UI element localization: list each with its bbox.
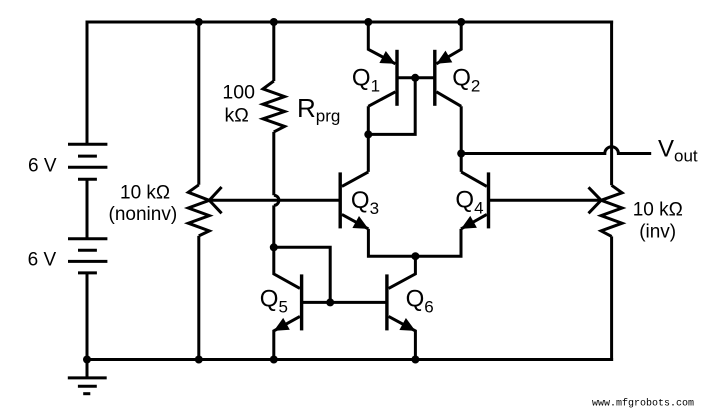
transistor Q4 emitter bbox=[461, 214, 487, 229]
node dot Q5 collector bbox=[270, 243, 278, 251]
node dot differential tail bbox=[411, 252, 419, 260]
wire hop over wiper line bbox=[274, 195, 279, 205]
transistor Q4 collector bbox=[461, 172, 487, 187]
wire right supply rail upper segment bbox=[610, 21, 613, 186]
wire output node to Vout with hop over right rail bbox=[461, 147, 651, 154]
battery V2 (6 V) bbox=[68, 239, 107, 273]
transistor Q2 collector bbox=[436, 92, 461, 107]
svg-text:6 V: 6 V bbox=[28, 250, 57, 271]
transistor Q1 emitter wire from top rail bbox=[368, 22, 395, 64]
svg-text:(noninv): (noninv) bbox=[109, 204, 178, 225]
transistor Q6 collector bbox=[389, 256, 416, 288]
ground bbox=[68, 360, 107, 394]
wire Rprg lower branch above hop bbox=[272, 132, 275, 195]
wire bottom supply rail bbox=[86, 358, 614, 361]
transistor Q4 emitter arrow bbox=[461, 216, 477, 229]
potentiometer noninv wiper arrowhead bbox=[209, 187, 221, 213]
svg-text:www.mfgrobots.com: www.mfgrobots.com bbox=[592, 397, 694, 409]
node dot bottom rail at Q6 emitter bbox=[411, 356, 419, 364]
wire Rprg top branch bbox=[272, 22, 275, 81]
wire between battery V1 and battery V2 bbox=[86, 179, 89, 239]
transistor Q5 collector bbox=[274, 247, 300, 288]
transistor Q1 collector bbox=[368, 92, 395, 107]
node dot output node bbox=[457, 150, 465, 158]
node dot bottom rail at noninv pot bbox=[195, 356, 203, 364]
transistor Q1 base bar bbox=[395, 50, 398, 106]
node dot bottom rail at Q5 emitter bbox=[270, 356, 278, 364]
transistor Q2 emitter arrow bbox=[436, 51, 452, 64]
transistor Q3 collector bbox=[342, 172, 368, 187]
transistor Q6 base bar bbox=[385, 274, 388, 330]
node dot top rail at Q1 emitter bbox=[364, 18, 372, 26]
node dot top rail at Q2 emitter bbox=[457, 18, 465, 26]
potentiometer inv wiper arrowhead bbox=[589, 187, 602, 213]
transistor Q3 base bar bbox=[339, 172, 342, 228]
potentiometer 10 kOhm noninv body bbox=[188, 185, 209, 236]
svg-text:kΩ: kΩ bbox=[225, 105, 249, 127]
transistor Q5 emitter bbox=[274, 316, 300, 359]
svg-text:10 kΩ: 10 kΩ bbox=[120, 183, 170, 204]
node dot top rail at noninv pot bbox=[195, 18, 203, 26]
wire top supply rail bbox=[86, 21, 614, 24]
transistor Q5 base bar bbox=[300, 274, 303, 330]
resistor Rprg 100 kOhm bbox=[263, 81, 285, 132]
wire Q1-Q2 base join bbox=[397, 76, 435, 79]
wire left potentiometer top branch bbox=[197, 22, 200, 185]
node dot Q5-Q6 base bbox=[326, 298, 334, 306]
potentiometer 10 kOhm inv body bbox=[601, 185, 622, 236]
svg-text:100: 100 bbox=[222, 81, 255, 103]
wire left supply rail upper segment bbox=[86, 21, 89, 145]
transistor Q2 base bar bbox=[433, 50, 436, 106]
wire Q1 base to Q1 collector diode tie bbox=[368, 78, 415, 135]
svg-text:(inv): (inv) bbox=[639, 222, 676, 243]
wire Q3 emitter to Q4 emitter tail bbox=[368, 229, 461, 256]
node dot top rail at Rprg bbox=[270, 18, 278, 26]
wire Rprg lower branch below hop bbox=[272, 205, 275, 247]
wire Q5-Q6 base join bbox=[302, 301, 387, 304]
transistor Q6 emitter arrow bbox=[399, 318, 415, 331]
wire Q2 collector down to Q4 collector bbox=[460, 106, 463, 172]
svg-text:10 kΩ: 10 kΩ bbox=[633, 200, 683, 221]
transistor Q1 emitter arrow bbox=[379, 51, 395, 64]
battery V1 (6 V) bbox=[68, 144, 107, 179]
wire Q5 collector to base diode tie bbox=[274, 247, 330, 302]
wire left supply rail lower segment bbox=[86, 273, 89, 360]
node dot bottom rail at ground bbox=[83, 356, 91, 364]
transistor Q6 emitter bbox=[389, 316, 416, 359]
transistor Q3 emitter bbox=[342, 214, 369, 229]
svg-text:6 V: 6 V bbox=[28, 156, 57, 177]
node dot Q1-Q2 base bbox=[411, 74, 419, 82]
transistor Q3 emitter arrow bbox=[352, 216, 368, 229]
wire Q1 collector down to Q3 collector bbox=[367, 106, 370, 172]
wire right supply rail lower segment bbox=[610, 236, 613, 361]
wire noninv wiper to Q3 base bbox=[209, 199, 340, 202]
wire Q4 base to inv wiper bbox=[489, 199, 602, 202]
transistor Q4 base bar bbox=[487, 172, 490, 228]
transistor Q5 emitter arrow bbox=[274, 318, 290, 331]
transistor Q2 emitter wire from top rail bbox=[436, 22, 461, 64]
wire left potentiometer bottom branch bbox=[197, 236, 200, 360]
node dot Q1 collector diode tie bbox=[364, 130, 372, 138]
